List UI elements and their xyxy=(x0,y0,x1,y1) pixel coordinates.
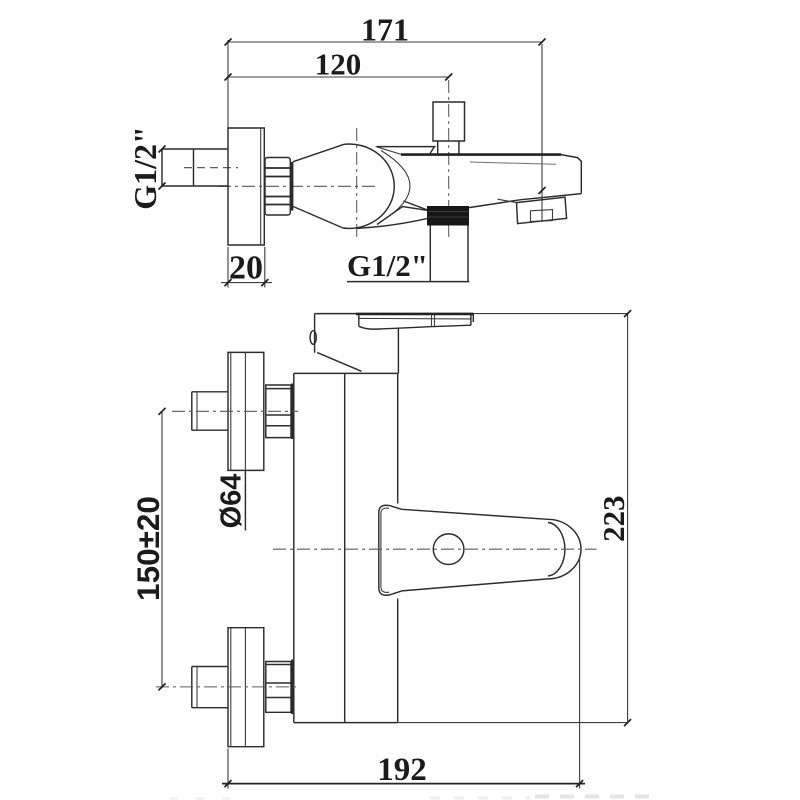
svg-text:G1/2": G1/2" xyxy=(347,248,428,283)
svg-text:20: 20 xyxy=(229,250,263,287)
svg-text:192: 192 xyxy=(377,752,427,788)
svg-text:150±20: 150±20 xyxy=(130,496,166,601)
svg-text:120: 120 xyxy=(315,47,362,82)
svg-text:223: 223 xyxy=(596,495,631,542)
svg-text:G1/2": G1/2" xyxy=(127,126,163,210)
svg-text:Ø64: Ø64 xyxy=(216,474,248,529)
svg-text:171: 171 xyxy=(361,12,409,48)
